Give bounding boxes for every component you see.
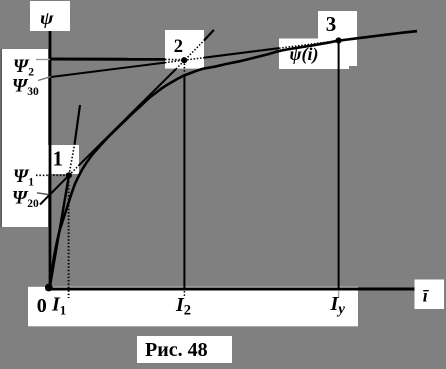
psi2 level dotted inside box 2 — [165, 58, 181, 60]
chord 2-3 solid right segment — [357, 31, 417, 39]
chord 1-2 dotted inside box 2 — [176, 41, 204, 70]
svg-text:1: 1 — [53, 147, 64, 171]
psi axis — [49, 31, 52, 289]
psi2 level connector (thin, left of axis) — [36, 59, 50, 61]
left label column white box — [2, 49, 48, 227]
svg-text:0: 0 — [37, 295, 47, 317]
vertical line Iy — [338, 44, 340, 288]
point 1 label box — [48, 145, 79, 174]
svg-text:2: 2 — [174, 37, 183, 57]
svg-text:ψ(i): ψ(i) — [290, 44, 319, 65]
svg-text:Рис. 48: Рис. 48 — [145, 339, 208, 361]
point 1 dot — [66, 172, 72, 178]
bottom axis label strip — [28, 287, 358, 327]
point 2 dot — [181, 57, 187, 63]
point 2 label box — [165, 30, 204, 69]
psi axis label box — [30, 1, 70, 31]
x axis — [46, 288, 415, 291]
chord 1-2 solid lower segment — [40, 175, 69, 204]
svg-text:ψ: ψ — [40, 8, 54, 28]
psi30 connector — [38, 77, 51, 81]
i axis label box — [415, 280, 445, 310]
dotted vertical I1 — [68, 178, 70, 298]
chord 0-1 solid from origin to point 1 — [50, 175, 69, 289]
chord 2-3 solid from psi axis to box 2 — [51, 63, 165, 77]
chord 2-3 dotted across box 2 — [165, 58, 204, 63]
psi(i) curve label box — [279, 39, 349, 70]
psi20 connector — [37, 193, 51, 195]
chord 1-2 solid middle segment — [79, 69, 176, 165]
curve psi(i) — [50, 31, 417, 288]
point 3 dot — [336, 37, 342, 43]
chord 0-1 upper solid segment — [75, 105, 80, 144]
psi2 level thick line — [50, 58, 165, 61]
point 3 label box — [318, 11, 357, 48]
chord 2-3 solid between boxes — [204, 48, 279, 58]
svg-text:3: 3 — [326, 12, 337, 36]
chord 2-3 dotted across psi(i) and 3 boxes — [279, 38, 357, 48]
origin point dot — [45, 284, 53, 292]
caption box — [137, 336, 232, 363]
vertical line I2 — [183, 74, 185, 288]
chord 0-1 dotted inside box 1 — [69, 144, 75, 175]
vertical line I2 dotted below axis — [183, 291, 185, 298]
psi1 dotted level line — [36, 174, 66, 176]
vertical line Iy gray continuation below axis — [338, 291, 340, 298]
point 3 label box lower-right notch — [343, 48, 357, 66]
chord 1-2 upper solid tip — [204, 30, 214, 41]
chord 1-2 dotted inside box 1 — [69, 165, 79, 175]
left label column dark edge — [1, 49, 3, 227]
vertical line I2 dotted inside box — [183, 64, 185, 75]
